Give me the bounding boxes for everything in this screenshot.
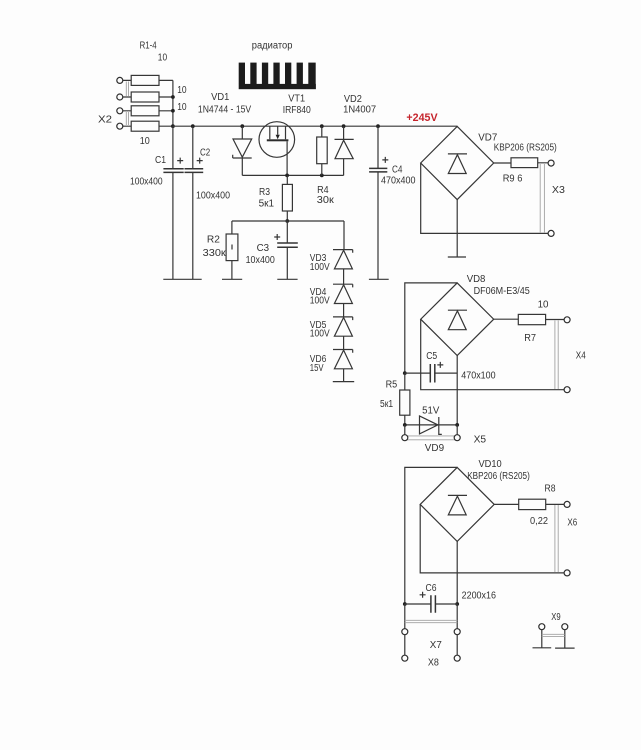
wire VD8 top vertex to R5 branch <box>405 283 457 373</box>
svg-text:470x400: 470x400 <box>381 175 416 186</box>
connector X6 <box>555 501 578 576</box>
bridge rectifier VD10 KBP206 <box>420 459 530 542</box>
svg-text:10: 10 <box>538 300 549 311</box>
svg-text:C6: C6 <box>426 583 437 594</box>
capacitor C3 <box>246 221 298 279</box>
ground bar under R2 <box>222 278 242 280</box>
svg-text:C2: C2 <box>200 147 210 158</box>
node C6 right <box>455 602 459 606</box>
zener diode VD9 51V <box>420 406 445 454</box>
wire VD7 left vertex to X3 minus <box>421 163 548 233</box>
svg-text:X5: X5 <box>474 435 487 446</box>
svg-text:X3: X3 <box>552 185 566 196</box>
connector X5 <box>402 425 487 446</box>
resistor R3 of R1-4 <box>123 106 173 116</box>
svg-text:R9 6: R9 6 <box>503 174 523 185</box>
connector X8 <box>402 635 460 669</box>
resistor R1 <box>123 75 173 85</box>
wire VD6 to ground bar <box>343 369 345 382</box>
capacitor C2 <box>185 126 231 279</box>
resistor R2 of R1-4 <box>123 92 173 102</box>
svg-text:5к1: 5к1 <box>259 199 275 210</box>
connector X3 <box>540 160 565 236</box>
svg-text:VD8: VD8 <box>467 274 486 285</box>
connector X7 <box>402 604 460 651</box>
svg-text:DF06M-E3/45: DF06M-E3/45 <box>474 286 531 297</box>
node junctions on bus <box>171 95 175 99</box>
svg-text:C4: C4 <box>392 165 403 176</box>
svg-text:KBP206 (RS205): KBP206 (RS205) <box>467 471 530 482</box>
wire VD10 top vertex to C6 plus <box>405 467 457 604</box>
bridge rectifier VD8 DF06M <box>421 274 531 356</box>
ground bar VD7 <box>448 256 466 258</box>
ground bar under C4 <box>369 278 389 280</box>
svg-text:100x400: 100x400 <box>196 191 230 202</box>
svg-text:R7: R7 <box>524 333 536 344</box>
svg-text:C3: C3 <box>257 243 270 254</box>
node C5 tap <box>403 371 407 375</box>
capacitor C1 <box>130 126 184 279</box>
svg-text:X8: X8 <box>428 657 440 668</box>
wire bus right of R1-4 <box>172 80 174 126</box>
capacitor C6 2200x16 <box>405 583 497 613</box>
connector X4 <box>555 317 586 393</box>
svg-text:330к: 330к <box>203 248 227 259</box>
resistor R9 6 <box>494 158 548 185</box>
node C2 tap <box>191 124 195 128</box>
svg-text:VD10: VD10 <box>479 459 503 470</box>
svg-text:51V: 51V <box>422 406 440 417</box>
wire R5 to VD9 to bridge line <box>405 424 457 426</box>
svg-text:R8: R8 <box>545 483 556 494</box>
wire VD8 left vertex to X4 minus <box>421 319 564 390</box>
wire VD10 bottom vertex to C6 minus <box>456 541 458 604</box>
node VD9 right <box>455 423 459 427</box>
svg-text:C5: C5 <box>426 351 437 362</box>
svg-text:X2: X2 <box>98 115 112 126</box>
resistor R5 5k1 <box>380 373 410 425</box>
resistor R4 of R1-4 <box>123 121 173 131</box>
capacitor C4 <box>369 124 416 279</box>
zener chain VD3 100V <box>310 221 353 273</box>
wire VD1-VT1-R4-VD2 lower link <box>242 174 343 176</box>
svg-text:10: 10 <box>140 136 150 147</box>
svg-text:VD9: VD9 <box>425 443 444 454</box>
svg-text:VD2: VD2 <box>344 94 362 105</box>
ground bar under VD6 <box>333 381 354 383</box>
svg-text:+245V: +245V <box>406 112 437 124</box>
svg-text:KBP206 (RS205): KBP206 (RS205) <box>494 143 557 154</box>
node R4 bottom junction <box>320 174 324 178</box>
svg-text:X4: X4 <box>576 350 586 361</box>
svg-text:470x100: 470x100 <box>461 371 496 382</box>
resistor R3 5k1 <box>259 175 293 221</box>
diode VD2 1N4007 <box>335 94 377 175</box>
wire main +rail <box>173 125 457 127</box>
svg-text:VD1: VD1 <box>211 92 229 103</box>
bridge rectifier VD7 KBP206 <box>421 126 557 199</box>
zener VD5 100V <box>310 304 353 340</box>
svg-text:X6: X6 <box>567 518 577 529</box>
node VD9 left <box>403 423 407 427</box>
svg-text:радиатор: радиатор <box>252 40 293 51</box>
svg-text:10: 10 <box>158 53 168 64</box>
zener VD6 15V <box>310 336 353 374</box>
svg-text:R5: R5 <box>386 379 398 390</box>
zener VD4 100V <box>310 269 353 307</box>
resistor R2 330k <box>203 221 238 279</box>
node R3 bottom junction <box>285 219 289 223</box>
svg-text:100V: 100V <box>310 296 330 307</box>
wire VD7 bottom vertex to ground <box>456 200 458 257</box>
svg-text:1N4744 - 15V: 1N4744 - 15V <box>198 105 252 116</box>
svg-text:X9: X9 <box>551 612 560 623</box>
svg-text:VT1: VT1 <box>288 94 305 105</box>
capacitor C5 470x100 <box>405 351 496 383</box>
svg-text:15V: 15V <box>310 363 324 374</box>
svg-text:R3: R3 <box>259 187 270 198</box>
resistor R7 10 <box>494 300 564 344</box>
svg-text:2200x16: 2200x16 <box>462 591 497 602</box>
svg-text:IRF840: IRF840 <box>283 105 312 116</box>
svg-text:30к: 30к <box>317 195 335 206</box>
connector X2 <box>98 77 129 129</box>
ground bar under C1 C2 <box>163 278 201 280</box>
svg-text:C1: C1 <box>155 155 166 166</box>
svg-text:0,22: 0,22 <box>530 516 548 527</box>
svg-text:100x400: 100x400 <box>130 177 163 188</box>
resistor R4 30k <box>317 124 335 206</box>
svg-text:10x400: 10x400 <box>246 255 276 266</box>
svg-text:X7: X7 <box>430 640 442 651</box>
svg-text:5к1: 5к1 <box>380 399 393 410</box>
transistor VT1 IRF840 <box>259 94 311 176</box>
heatsink радиатор <box>239 40 316 89</box>
node C6 left <box>403 602 407 606</box>
svg-text:10: 10 <box>177 85 187 96</box>
connector X9 <box>539 612 568 648</box>
svg-text:10: 10 <box>177 102 187 113</box>
zener diode VD1 1N4744 <box>198 92 252 175</box>
wire VD10 left vertex to X6 minus <box>420 504 564 573</box>
ground bar X9 right <box>555 647 575 649</box>
svg-text:1N4007: 1N4007 <box>343 105 376 116</box>
wire VD8 bottom vertex down <box>456 356 458 425</box>
label R1-4 values <box>140 41 187 147</box>
svg-text:R1-4: R1-4 <box>140 41 157 52</box>
svg-text:100V: 100V <box>310 262 330 273</box>
ground bar X9 left <box>533 647 552 649</box>
wire R2-C3-VD3 link <box>232 220 344 222</box>
node VT1 source junction <box>285 174 289 178</box>
ground bar under C3 <box>277 278 297 280</box>
svg-text:R2: R2 <box>207 235 220 246</box>
resistor R8 0,22 <box>494 483 564 527</box>
svg-text:100V: 100V <box>310 329 330 340</box>
